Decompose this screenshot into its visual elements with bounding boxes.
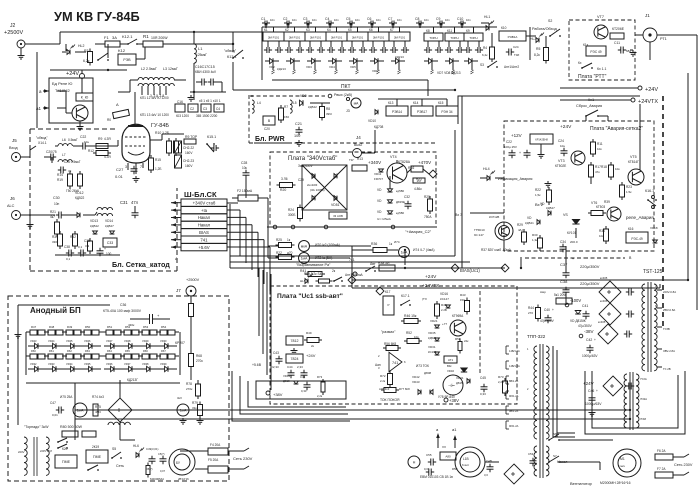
svg-text:100: 100	[294, 134, 300, 138]
svg-text:6,2к: 6,2к	[482, 53, 488, 57]
svg-text:С7: С7	[388, 17, 392, 21]
svg-text:ТПП-322: ТПП-322	[527, 334, 546, 339]
svg-text:Вх 3: Вх 3	[455, 213, 462, 217]
svg-text:КД213: КД213	[277, 67, 286, 71]
svg-text:С4: С4	[216, 107, 220, 111]
svg-text:+340V стаб: +340V стаб	[193, 200, 216, 205]
svg-text:С2: С2	[190, 107, 194, 111]
svg-text:КД521: КД521	[525, 221, 534, 225]
svg-text:С16: С16	[177, 100, 183, 104]
svg-text:VD28: VD28	[124, 339, 131, 343]
svg-text:VD24: VD24	[48, 339, 55, 343]
svg-text:ТОРН: ТОРН	[450, 36, 458, 40]
svg-text:47к: 47к	[595, 170, 600, 174]
svg-text:R0: R0	[107, 118, 111, 122]
svg-text:Бл. PWR: Бл. PWR	[255, 136, 285, 143]
svg-text:С38: С38	[64, 245, 70, 249]
svg-text:VD44: VD44	[283, 374, 290, 378]
svg-text:ПКТ: ПКТ	[341, 84, 351, 90]
svg-text:VD30: VD30	[160, 339, 167, 343]
svg-text:J3: J3	[346, 109, 350, 113]
svg-text:10п: 10п	[376, 18, 381, 22]
svg-text:кд580: кд580	[396, 211, 404, 215]
svg-text:R46 15к: R46 15к	[404, 314, 417, 318]
svg-text:РЭВ: РЭВ	[123, 58, 131, 62]
svg-text:VD26: VD26	[84, 339, 91, 343]
svg-text:14В/1.3А: 14В/1.3А	[509, 349, 520, 353]
svg-text:7И2А: 7И2А	[640, 397, 647, 401]
svg-text:39Я: 39Я	[326, 112, 332, 116]
svg-text:КТ206Е: КТ206Е	[612, 27, 625, 31]
svg-text:Т1Г: Т1Г	[349, 158, 355, 162]
svg-text:VD35: VD35	[428, 331, 436, 335]
svg-text:+12V: +12V	[511, 133, 522, 138]
svg-text:R50': R50'	[452, 467, 458, 471]
svg-text:L3 12мкГ: L3 12мкГ	[163, 67, 178, 71]
svg-text:КД213Г: КД213Г	[127, 378, 138, 382]
svg-text:5к1 20W: 5к1 20W	[554, 293, 566, 297]
svg-text:10п: 10п	[445, 18, 450, 22]
svg-text:VD7 VD8 КД213: VD7 VD8 КД213	[437, 71, 461, 75]
svg-text:R20: R20	[280, 188, 286, 192]
svg-text:VD31: VD31	[428, 345, 436, 349]
svg-text:10п: 10п	[312, 18, 317, 22]
svg-text:"размах": "размах"	[381, 330, 396, 334]
svg-text:4.3Я: 4.3Я	[104, 137, 111, 141]
svg-text:+: +	[596, 389, 598, 393]
svg-text:15Г: 15Г	[417, 179, 422, 183]
svg-text:220V: 220V	[18, 450, 25, 454]
svg-text:+24V: +24V	[583, 381, 594, 386]
svg-text:С3: С3	[303, 17, 307, 21]
svg-text:270к: 270к	[196, 359, 203, 363]
svg-text:С22: С22	[80, 135, 86, 139]
svg-text:КУ101: КУ101	[567, 231, 576, 235]
svg-text:8,2к: 8,2к	[534, 53, 540, 57]
svg-text:РЭС-49: РЭС-49	[631, 237, 643, 241]
svg-text:+: +	[572, 257, 574, 261]
svg-text:R74 4х3: R74 4х3	[92, 395, 104, 399]
svg-text:ЗМ Р101: ЗМ Р101	[268, 36, 280, 40]
svg-text:VD4: VD4	[329, 65, 335, 69]
svg-text:К13: К13	[388, 101, 394, 105]
svg-text:К4: К4	[327, 28, 331, 32]
svg-text:ГУ-2В: ГУ-2В	[663, 367, 671, 371]
svg-text:VD2: VD2	[269, 65, 275, 69]
svg-text:BIAS(Uс1): BIAS(Uс1)	[460, 268, 480, 273]
svg-text:R9 ТОР: R9 ТОР	[185, 135, 198, 139]
svg-text:F2 150мА: F2 150мА	[237, 189, 253, 193]
svg-text:х5 1 х5 1 х10 1: х5 1 х5 1 х10 1	[199, 99, 221, 103]
svg-text:R47: R47	[31, 325, 37, 329]
svg-text:Д815Е: Д815Е	[396, 200, 405, 204]
svg-text:6 мкч: 6 мкч	[618, 464, 625, 468]
svg-text:6,2к: 6,2к	[83, 59, 90, 63]
svg-text:ПМЕ: ПМЕ	[93, 455, 102, 459]
svg-text:VT7: VT7	[597, 15, 604, 19]
svg-text:С6: С6	[367, 17, 371, 21]
svg-text:R49: R49	[67, 325, 73, 329]
svg-text:С28: С28	[241, 161, 247, 165]
svg-text:КТ502Е: КТ502Е	[555, 164, 566, 168]
svg-text:С20/75: С20/75	[46, 150, 57, 154]
svg-text:+24V: +24V	[645, 87, 658, 93]
svg-text:Работа/Обход: Работа/Обход	[532, 27, 557, 31]
svg-text:КТ5-40А 100 мкф 3000V: КТ5-40А 100 мкф 3000V	[103, 309, 142, 313]
svg-text:33 АОВ: 33 АОВ	[333, 214, 343, 218]
svg-text:VD40: VD40	[447, 369, 454, 373]
svg-text:220V 13,8: 220V 13,8	[40, 449, 52, 453]
svg-text:+24V: +24V	[66, 71, 79, 77]
svg-text:С34: С34	[560, 240, 566, 244]
svg-text:РЭВ14: РЭВ14	[392, 110, 402, 114]
svg-text:0.5мкГ: 0.5мкГ	[68, 138, 78, 142]
svg-text:Д808: Д808	[424, 371, 431, 375]
svg-text:9С:147: 9С:147	[474, 233, 484, 237]
svg-text:С5(?): С5(?)	[158, 452, 165, 456]
svg-text:Авт: Авт	[370, 262, 376, 266]
svg-text:И74: И74	[394, 240, 400, 244]
svg-text:R50: R50	[85, 325, 91, 329]
svg-text:КР142ЕН8: КР142ЕН8	[535, 137, 548, 141]
svg-text:100: 100	[106, 252, 112, 256]
svg-text:Вых2: Вых2	[354, 143, 362, 147]
svg-text:"Торнадо" 3кW: "Торнадо" 3кW	[24, 425, 49, 429]
svg-text:VD23: VD23	[30, 339, 37, 343]
svg-text:Кх 1.1: Кх 1.1	[597, 67, 606, 71]
svg-text:С45: С45	[480, 376, 486, 380]
svg-text:10к: 10к	[242, 166, 248, 170]
svg-text:F4 20А: F4 20А	[210, 443, 221, 447]
svg-text:КТ503: КТ503	[596, 205, 605, 209]
svg-text:R24: R24	[288, 208, 294, 212]
svg-text:R66: R66	[143, 349, 148, 353]
svg-text:Кн1: Кн1	[588, 98, 594, 102]
svg-text:КД527: КД527	[105, 224, 114, 228]
svg-text:R5: R5	[536, 47, 540, 51]
svg-text:С22: С22	[506, 140, 512, 144]
svg-text:С41: С41	[582, 304, 588, 308]
svg-text:+: +	[594, 338, 596, 342]
svg-text:Бд Реле Ю: Бд Реле Ю	[52, 81, 72, 86]
svg-text:10п: 10п	[334, 18, 339, 22]
svg-text:VD: VD	[377, 188, 382, 192]
svg-text:741: 741	[349, 258, 355, 262]
svg-text:РЭС 49: РЭС 49	[590, 50, 601, 54]
svg-text:Амр: Амр	[540, 290, 546, 294]
svg-text:VD43: VD43	[412, 380, 420, 384]
svg-text:+77: +77	[442, 322, 447, 326]
svg-text:С47: С47	[50, 401, 56, 405]
svg-text:КД522: КД522	[90, 224, 99, 228]
svg-text:А: А	[116, 102, 119, 107]
svg-text:R8(?): R8(?)	[146, 467, 153, 471]
svg-text:2.2к: 2.2к	[380, 379, 386, 383]
svg-text:А80: А80	[445, 454, 451, 458]
svg-text:кс405: кс405	[600, 276, 608, 280]
svg-text:VD6: VD6	[372, 69, 378, 73]
svg-text:3,3: 3,3	[85, 244, 90, 248]
svg-text:220µ/350V: 220µ/350V	[580, 264, 600, 269]
svg-text:кс405: кс405	[598, 320, 606, 324]
svg-text:F7 2А: F7 2А	[657, 467, 666, 471]
svg-text:Сеть 230V: Сеть 230V	[674, 463, 693, 467]
svg-text:47µ/350V: 47µ/350V	[578, 324, 593, 328]
svg-text:R11: R11	[597, 142, 603, 146]
svg-text:С46: С46	[588, 389, 594, 393]
svg-text:Сброс_Авария: Сброс_Авария	[576, 104, 602, 108]
svg-text:HL6: HL6	[133, 444, 139, 448]
svg-text:И74 /L7 (4мА): И74 /L7 (4мА)	[413, 248, 435, 252]
svg-text:VD9: VD9	[300, 94, 307, 98]
svg-text:С36: С36	[120, 303, 126, 307]
svg-text:К6: К6	[369, 28, 373, 32]
svg-text:R77 6К8: R77 6К8	[399, 387, 410, 391]
svg-text:К1: К1	[264, 28, 268, 32]
svg-text:R23: R23	[626, 185, 632, 189]
svg-text:R49: R49	[306, 331, 312, 335]
svg-text:УМ КВ ГУ-84Б: УМ КВ ГУ-84Б	[54, 9, 140, 24]
svg-text:ТSТ-125: ТSТ-125	[643, 269, 663, 275]
svg-text:0.01: 0.01	[115, 174, 124, 179]
svg-text:1мА: 1мА	[401, 251, 408, 255]
svg-text:10п: 10п	[397, 18, 402, 22]
svg-text:1000µ/63V: 1000µ/63V	[585, 402, 602, 406]
svg-text:С37: С37	[560, 262, 568, 267]
svg-text:ГТ5D10: ГТ5D10	[474, 228, 485, 232]
svg-text:430к: 430к	[128, 323, 135, 327]
svg-text:С29: С29	[298, 178, 304, 182]
svg-text:7: 7	[140, 165, 142, 169]
svg-text:R19: R19	[57, 178, 63, 182]
svg-text:"обвод": "обвод"	[36, 136, 48, 140]
svg-text:VD: VD	[377, 199, 382, 203]
svg-text:С42: С42	[586, 338, 592, 342]
svg-text:R4: R4	[483, 46, 487, 50]
svg-text:0,1: 0,1	[78, 245, 83, 249]
svg-text:R7: R7	[284, 105, 288, 109]
svg-text:К15.1: К15.1	[207, 135, 216, 139]
svg-text:VD: VD	[527, 216, 532, 220]
svg-text:К17.1: К17.1	[401, 294, 410, 298]
svg-text:VD25: VD25	[66, 339, 73, 343]
svg-text:РЭН 34: РЭН 34	[441, 110, 452, 114]
svg-text:+470V: +470V	[418, 160, 431, 165]
svg-text:VD27: VD27	[106, 339, 113, 343]
svg-text:R51: R51	[107, 325, 113, 329]
svg-text:VD32: VD32	[30, 362, 37, 366]
svg-text:F6 2А: F6 2А	[657, 449, 666, 453]
svg-text:150: 150	[284, 115, 289, 119]
svg-text:K12: K12	[118, 48, 126, 53]
svg-text:С40: С40	[544, 308, 550, 312]
svg-text:BIAS: BIAS	[199, 230, 209, 235]
svg-text:R31: R31	[599, 229, 605, 233]
svg-text:ТОРН: ТОРН	[469, 36, 477, 40]
svg-text:ЗМ Р101: ЗМ Р101	[352, 36, 364, 40]
svg-text:VD39: VD39	[160, 362, 167, 366]
svg-text:2,33: 2,33	[297, 365, 303, 369]
svg-text:R25: R25	[276, 238, 282, 242]
svg-text:С1: С1	[261, 17, 265, 21]
svg-text:R73: R73	[317, 375, 323, 379]
svg-text:HL3: HL3	[530, 37, 536, 41]
svg-text:Рвых (2кВ): Рвых (2кВ)	[334, 93, 352, 97]
svg-text:Плата "Uс1 ssb-авт": Плата "Uс1 ssb-авт"	[277, 293, 343, 300]
svg-text:К3: К3	[306, 28, 310, 32]
svg-text:+24V: +24V	[560, 124, 572, 130]
svg-text:ГУЗВ: ГУЗВ	[663, 327, 670, 331]
svg-text:Вход: Вход	[9, 146, 18, 150]
svg-text:КП1 12 4кV Ю 1200: КП1 12 4кV Ю 1200	[140, 96, 169, 100]
svg-text:Плата "Авария-сетка2": Плата "Авария-сетка2"	[590, 126, 643, 132]
svg-text:К_Ю: К_Ю	[81, 95, 89, 99]
svg-text:кс405: кс405	[600, 299, 608, 303]
svg-text:2К19: 2К19	[92, 445, 99, 449]
svg-text:1мА: 1мА	[180, 409, 187, 413]
svg-text:4к7: 4к7	[50, 215, 55, 219]
svg-text:R25: R25	[424, 195, 430, 199]
svg-text:I2,33: I2,33	[272, 365, 279, 369]
svg-text:К9: К9	[466, 29, 470, 33]
svg-text:Вентилятор: Вентилятор	[570, 481, 593, 486]
svg-text:VT4: VT4	[390, 155, 397, 159]
svg-text:+24V: +24V	[425, 274, 437, 280]
svg-text:+: +	[104, 247, 106, 251]
svg-text:К16.1: К16.1	[645, 189, 654, 193]
svg-text:С26 0.5мкГ: С26 0.5мкГ	[64, 160, 81, 164]
svg-text:Накал: Накал	[198, 215, 211, 220]
svg-text:КВИ 4300 4кV: КВИ 4300 4кV	[195, 70, 217, 74]
svg-text:1,2Б: 1,2Б	[155, 167, 162, 171]
svg-text:3кV: 3кV	[177, 396, 182, 400]
svg-text:И73 ТОК: И73 ТОК	[416, 364, 429, 368]
svg-text:К15: К15	[438, 101, 444, 105]
svg-text:2В'16'16: 2В'16'16	[178, 477, 189, 481]
svg-text:R15: R15	[155, 158, 161, 162]
svg-text:С35: С35	[84, 239, 90, 243]
svg-text:С31: С31	[120, 200, 128, 205]
svg-text:J6: J6	[10, 196, 15, 201]
svg-text:С9: С9	[436, 17, 440, 21]
svg-text:R44: R44	[528, 306, 534, 310]
svg-text:R22: R22	[535, 188, 541, 192]
svg-text:Плата "340Vстаб": Плата "340Vстаб"	[288, 156, 337, 162]
svg-text:С2: С2	[283, 17, 287, 21]
svg-text:7812: 7812	[291, 339, 299, 343]
svg-text:Д815: Д815	[456, 381, 463, 385]
svg-text:J5: J5	[12, 138, 17, 143]
svg-text:R61: R61	[49, 349, 54, 353]
svg-text:VS: VS	[563, 213, 568, 217]
svg-text:2кл10Я: 2кл10Я	[307, 183, 317, 187]
svg-text:HL4: HL4	[483, 167, 490, 171]
svg-text:1мА: 1мА	[301, 257, 308, 261]
svg-text:J4: J4	[356, 135, 361, 140]
svg-text:R37 820' кзаб -80мА: R37 820' кзаб -80мА	[481, 248, 512, 252]
svg-text:1мА: 1мА	[77, 409, 84, 413]
svg-text:0,07: 0,07	[160, 469, 166, 473]
svg-text:3,0: 3,0	[484, 473, 488, 477]
svg-text:220µ/350V: 220µ/350V	[580, 281, 600, 286]
svg-text:Накал: Накал	[198, 223, 211, 228]
svg-text:R21: R21	[50, 210, 56, 214]
svg-text:270к: 270к	[186, 387, 193, 391]
svg-text:КТ969А: КТ969А	[452, 314, 464, 318]
svg-text:R65: R65	[125, 349, 130, 353]
svg-text:VD41: VD41	[456, 376, 464, 380]
svg-text:330: 330	[52, 240, 57, 244]
svg-text:К8: К8	[426, 29, 430, 33]
svg-text:VT3: VT3	[558, 159, 565, 163]
svg-text:КД522: КД522	[308, 105, 317, 109]
svg-text:С44: С44	[300, 375, 306, 379]
svg-text:160V: 160V	[185, 151, 193, 155]
svg-text:R30: R30	[532, 233, 538, 237]
svg-text:160V: 160V	[185, 164, 193, 168]
svg-text:R80 500 60W: R80 500 60W	[60, 425, 83, 429]
svg-text:С53: С53	[528, 452, 534, 456]
svg-text:VD51: VD51	[331, 203, 340, 207]
svg-text:С55: С55	[426, 453, 432, 457]
svg-text:0,33: 0,33	[480, 392, 486, 396]
svg-text:VD10: VD10	[368, 119, 376, 123]
svg-text:VD: VD	[377, 210, 382, 214]
svg-text:200.0: 200.0	[570, 240, 578, 244]
svg-text:С38: С38	[560, 279, 568, 284]
svg-text:47µ/350V: 47µ/350V	[540, 319, 555, 323]
svg-text:+24VTX: +24VTX	[638, 99, 658, 105]
svg-text:VD42: VD42	[412, 375, 420, 379]
svg-text:1,5к: 1,5к	[535, 193, 541, 197]
svg-text:+340V: +340V	[368, 160, 381, 165]
svg-text:0,01: 0,01	[52, 413, 58, 417]
svg-text:VD29: VD29	[142, 339, 149, 343]
svg-text:750А: 750А	[424, 215, 432, 219]
svg-text:R8: R8	[326, 107, 330, 111]
svg-text:ЗВV-2.8А: ЗВV-2.8А	[663, 349, 675, 353]
svg-text:R14: R14	[57, 173, 63, 177]
svg-text:J1: J1	[645, 13, 650, 18]
svg-text:0,33: 0,33	[301, 389, 307, 393]
svg-text:VD37: VD37	[124, 362, 131, 366]
svg-text:А: А	[175, 256, 178, 261]
svg-text:VD35: VD35	[84, 362, 91, 366]
svg-text:М2000МН: М2000МН	[150, 477, 164, 481]
svg-text:С16С17С15: С16С17С15	[195, 65, 215, 69]
svg-text:С10: С10	[457, 17, 463, 21]
svg-text:С24: С24	[513, 45, 519, 49]
svg-text:КД522: КД522	[75, 196, 85, 200]
svg-text:ИВV-0.8А: ИВV-0.8А	[663, 308, 675, 312]
svg-text:РЭВ1А: РЭВ1А	[508, 35, 518, 39]
svg-text:L1: L1	[198, 46, 203, 51]
svg-text:VD16: VD16	[440, 292, 448, 296]
svg-text:VD12: VD12	[75, 191, 84, 195]
svg-text:VD38: VD38	[142, 362, 149, 366]
svg-text:R12: R12	[88, 149, 94, 153]
svg-text:VD14: VD14	[105, 219, 113, 223]
svg-text:+2500V: +2500V	[186, 278, 200, 282]
svg-text:КОГ12В: КОГ12В	[489, 215, 499, 219]
svg-text:К11: К11	[447, 29, 452, 33]
svg-text:кд580: кд580	[396, 189, 404, 193]
svg-text:F5 20А: F5 20А	[208, 458, 219, 462]
svg-text:С44: С44	[287, 365, 293, 369]
svg-text:R62: R62	[67, 349, 72, 353]
svg-text:R43: R43	[460, 293, 466, 297]
svg-text:R78: R78	[186, 382, 192, 386]
